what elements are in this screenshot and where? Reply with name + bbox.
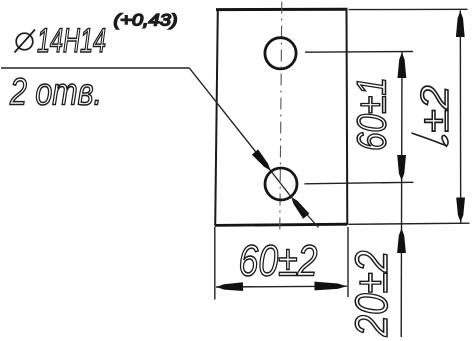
leader diagonal — [189, 68, 270, 171]
arrow L±2 top (up) — [456, 11, 465, 37]
svg-text:2 отв.: 2 отв. — [9, 72, 102, 114]
hole top — [265, 38, 296, 69]
arrow 20±2 lower (up) — [397, 229, 406, 254]
plate bottom edge — [215, 224, 348, 225]
extension line plate bottom right — [349, 223, 470, 224]
leader arrow into hole (lower) — [291, 197, 309, 219]
dimension line 60±1 / 20±2 vertical — [400, 52, 403, 337]
plate left edge — [215, 10, 218, 226]
leader tail — [291, 197, 318, 228]
arrow 60±1 bottom (down) — [397, 155, 406, 181]
centerline (dash-dot vertical axis) — [280, 2, 282, 232]
dimension line L±2 vertical — [459, 11, 461, 224]
leader chord through hole — [271, 171, 292, 198]
svg-text:20±2: 20±2 — [346, 251, 397, 338]
extension line 60±2 right — [347, 227, 349, 297]
arrow 60±2 left — [217, 282, 244, 291]
arrow 60±2 right — [315, 282, 347, 291]
leader underline — [1, 67, 189, 69]
dimension line 60±2 horizontal — [216, 285, 347, 288]
plate right edge — [346, 10, 349, 225]
extension line top hole center — [305, 51, 413, 54]
svg-text:±2: ±2 — [414, 85, 457, 132]
hole bottom — [265, 168, 297, 200]
svg-text:60±1: 60±1 — [349, 77, 395, 151]
arrow L±2 bottom (down) — [456, 198, 465, 223]
extension line 60±2 left — [214, 227, 216, 300]
script ell glyph — [412, 133, 449, 147]
arrow 60±1 top (up) — [398, 53, 407, 79]
svg-text:14H14: 14H14 — [37, 22, 106, 60]
svg-text:(+0,43): (+0,43) — [114, 11, 178, 30]
extension line plate top right — [349, 8, 468, 10]
extension line bottom hole center — [305, 182, 414, 184]
diameter symbol of callout — [15, 30, 36, 53]
svg-text:60±2: 60±2 — [239, 237, 318, 286]
plate top edge — [216, 8, 348, 11]
leader arrow into hole (upper) — [252, 149, 271, 170]
